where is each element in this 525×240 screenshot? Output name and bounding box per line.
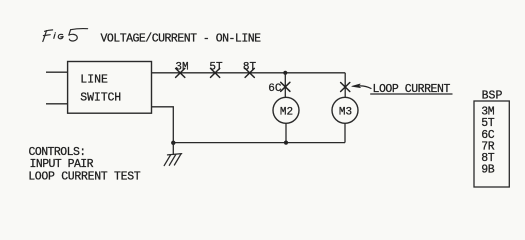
svg-text:5T: 5T	[209, 61, 223, 73]
wire left input top	[46, 71, 68, 73]
svg-text:SWITCH: SWITCH	[80, 92, 121, 105]
wire M2 branch vertical	[284, 73, 286, 98]
underline	[370, 93, 452, 95]
svg-text:M2: M2	[280, 106, 293, 118]
meter M3	[332, 97, 358, 123]
wire right corner down to M3	[344, 73, 346, 98]
svg-text:LOOP CURRENT TEST: LOOP CURRENT TEST	[28, 171, 141, 184]
wire M3 bottom	[344, 123, 346, 142]
wire M2 bottom	[285, 123, 287, 142]
ground symbol	[164, 143, 182, 166]
svg-text:VOLTAGE/CURRENT - ON-LINE: VOLTAGE/CURRENT - ON-LINE	[101, 33, 262, 46]
svg-text:INPUT PAIR: INPUT PAIR	[30, 158, 94, 171]
cross mark 8T	[245, 68, 254, 77]
wire top horizontal	[152, 72, 346, 74]
svg-text:3M: 3M	[175, 61, 188, 73]
line switch box U1	[68, 62, 152, 114]
svg-text:M3: M3	[339, 106, 352, 118]
cross mark 6C	[281, 82, 290, 91]
figure label FIG 5 (handwritten)	[43, 29, 88, 42]
wire bottom horizontal	[173, 142, 345, 144]
junction node ground	[171, 141, 175, 145]
wire left input bottom	[46, 103, 68, 105]
svg-text:CONTROLS:: CONTROLS:	[29, 146, 86, 159]
svg-text:8T: 8T	[243, 61, 257, 73]
wire box lower-right exit	[152, 107, 174, 143]
meter M2	[273, 97, 299, 123]
arrow to loop current test point	[352, 84, 361, 88]
junction node on top wire	[283, 71, 287, 75]
svg-text:6C: 6C	[268, 83, 282, 95]
BSP legend box	[474, 101, 509, 187]
svg-text:LINE: LINE	[80, 74, 108, 87]
svg-text:9B: 9B	[481, 164, 495, 177]
cross mark loop current test point	[341, 83, 350, 92]
junction node under M2	[284, 141, 288, 145]
cross mark 3M	[176, 68, 185, 77]
cross mark 5T	[211, 68, 220, 77]
